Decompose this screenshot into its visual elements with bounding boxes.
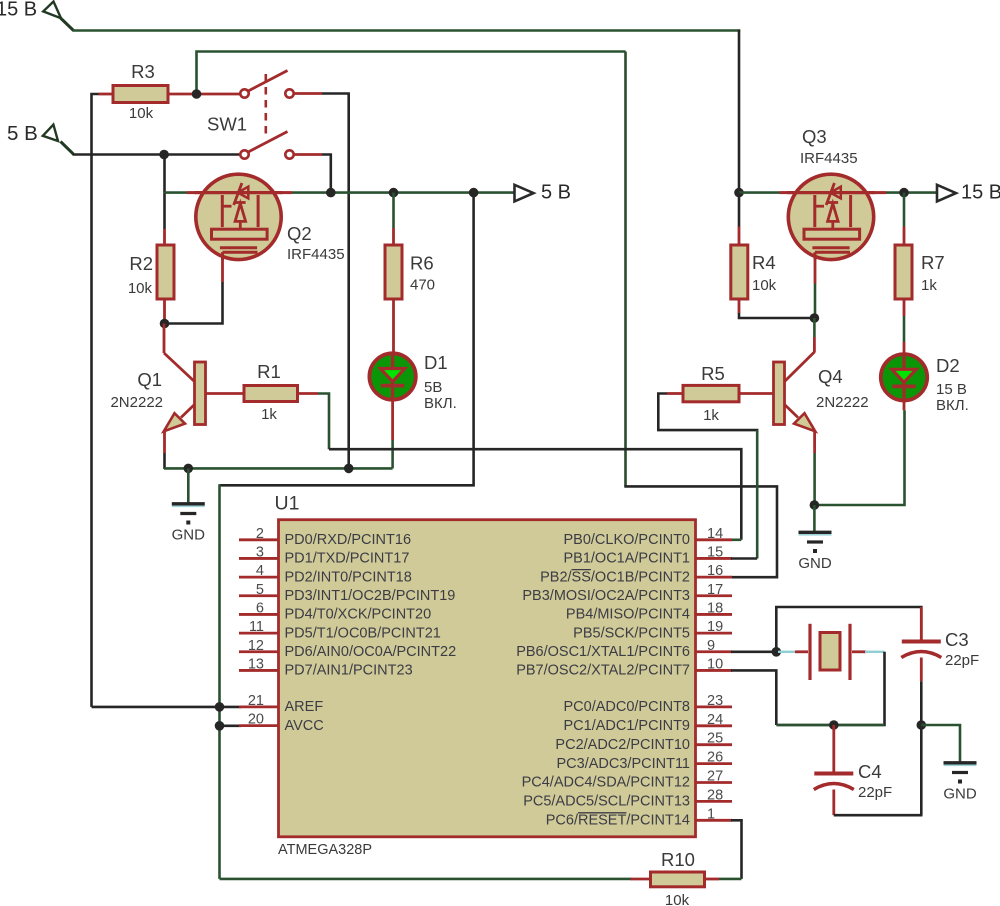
pin 21 AREF (239, 693, 323, 715)
svg-text:R2: R2 (129, 253, 153, 274)
wire Q3 gate lead (814, 259, 817, 318)
wire Q2 gate elbow (165, 260, 223, 324)
svg-text:R6: R6 (410, 253, 434, 274)
pin 1 PC6 (546, 806, 732, 828)
svg-text:AREF: AREF (285, 699, 324, 715)
wire AVCC net vertical (218, 484, 221, 879)
wire osc bottom rail (776, 724, 884, 727)
svg-text:27: 27 (707, 769, 723, 785)
node SW1-pole2 on rail (326, 188, 336, 198)
resistor R1 (244, 361, 298, 423)
node R6 top on rail (389, 188, 399, 198)
svg-text:26: 26 (707, 750, 723, 766)
label ATMEGA328P (278, 842, 372, 858)
svg-text:16: 16 (707, 563, 723, 579)
wire PB7 link (731, 670, 776, 725)
svg-text:R10: R10 (661, 849, 695, 870)
wire SW1 pole1 drop (347, 94, 350, 469)
switch SW1 pole 2 (240, 132, 293, 159)
ground GND crystal (943, 763, 977, 803)
wire crystal right lead (852, 650, 885, 653)
svg-text:PD3/INT1/OC2B/PCINT19: PD3/INT1/OC2B/PCINT19 (285, 588, 456, 604)
svg-text:1k: 1k (703, 407, 719, 424)
led D1 (369, 352, 456, 412)
node AVCC branch on rail (469, 188, 479, 198)
node C4 top junction (829, 720, 839, 730)
pin 26 PC3 (557, 750, 733, 772)
svg-text:D1: D1 (424, 352, 448, 373)
svg-text:C3: C3 (945, 629, 969, 650)
svg-text:4: 4 (256, 563, 264, 579)
resistor R2 (128, 245, 174, 299)
pin 20 AVCC (239, 712, 324, 734)
svg-text:23: 23 (707, 693, 723, 709)
wire switched-15V riser (197, 52, 626, 95)
capacitor C4 (814, 761, 892, 801)
svg-text:24: 24 (707, 712, 723, 728)
svg-text:15: 15 (707, 544, 723, 560)
pin 28 PC5 (523, 787, 732, 809)
wire 5V to AVCC net (220, 193, 474, 486)
pin 13 PD7 (239, 656, 413, 678)
wire PC6 to R10 (731, 820, 742, 879)
node SW1-pole1 on rail (344, 464, 354, 474)
svg-text:R4: R4 (752, 252, 776, 273)
resistor R10 (651, 849, 705, 906)
node R2/Q2-gate/Q1 junction (160, 319, 170, 329)
wire R10 right lead (705, 878, 742, 881)
wire D2 bottom lead (814, 399, 904, 505)
svg-text:10k: 10k (128, 280, 153, 297)
svg-text:PB7/OSC2/XTAL2/PCINT7: PB7/OSC2/XTAL2/PCINT7 (516, 663, 690, 679)
pin 24 PC1 (563, 712, 732, 734)
wire AREF horizontal (92, 706, 242, 709)
svg-text:19: 19 (707, 619, 723, 635)
wire 5V rail right (281, 191, 515, 194)
svg-text:GND: GND (943, 786, 977, 803)
svg-text:PB6/OSC1/XTAL1/PCINT6: PB6/OSC1/XTAL1/PCINT6 (516, 644, 690, 660)
svg-text:PB1/OC1A/PCINT1: PB1/OC1A/PCINT1 (563, 551, 690, 567)
transistor Q1 2N2222 (110, 362, 244, 431)
pin 3 PD1 (239, 544, 409, 566)
wire R6 top lead (392, 193, 395, 245)
wire R3 right lead (168, 93, 241, 96)
svg-text:2N2222: 2N2222 (110, 394, 163, 411)
svg-text:3: 3 (256, 544, 264, 560)
wire 5V feed to SW1 (73, 153, 242, 156)
svg-text:C4: C4 (858, 761, 882, 782)
label SW1 (207, 114, 247, 135)
terminal 15V output (937, 182, 1000, 204)
wire GND right branch (813, 505, 816, 532)
svg-text:PD6/AIN0/OC0A/PCINT22: PD6/AIN0/OC0A/PCINT22 (285, 644, 457, 660)
node Q4-emitter/D2/GND junction (810, 500, 820, 510)
svg-text:22pF: 22pF (945, 652, 979, 669)
pin 17 PB3 (522, 582, 732, 604)
svg-text:5В: 5В (424, 379, 442, 396)
svg-text:15 В: 15 В (0, 0, 37, 21)
wire R3 left elbow (92, 94, 99, 707)
resistor R6 (385, 245, 435, 299)
pin 14 PB0 (563, 526, 732, 548)
switch SW1 gang link (264, 74, 267, 136)
svg-text:5 В: 5 В (541, 182, 571, 204)
svg-text:1: 1 (707, 806, 715, 822)
pin 12 PD6 (239, 638, 456, 660)
svg-text:21: 21 (248, 693, 264, 709)
node R7 top junction (899, 188, 909, 198)
svg-text:1k: 1k (921, 277, 937, 294)
wire R10 left lead (631, 878, 651, 881)
svg-text:PD7/AIN1/PCINT23: PD7/AIN1/PCINT23 (285, 663, 413, 679)
pin 6 PD4 (239, 600, 431, 622)
node Q3-gate/Q4-collector junction (810, 313, 820, 323)
svg-text:PB4/MISO/PCINT4: PB4/MISO/PCINT4 (566, 607, 690, 623)
mosfet Q3 IRF4435 (780, 126, 875, 260)
svg-text:12: 12 (248, 638, 264, 654)
svg-text:20: 20 (248, 712, 264, 728)
pin 4 PD2 (239, 563, 412, 585)
capacitor C3 (901, 629, 979, 669)
svg-text:6: 6 (256, 600, 264, 616)
svg-text:1k: 1k (261, 406, 277, 423)
pin 5 PD3 (239, 582, 455, 604)
svg-text:10k: 10k (665, 892, 690, 906)
wire 15V rail to Q3 (739, 191, 780, 194)
wire Q4 collector (785, 318, 815, 382)
pin 15 PB1 (563, 544, 732, 566)
svg-text:Q1: Q1 (137, 369, 162, 390)
pin 11 PD5 (239, 619, 441, 641)
svg-text:PC3/ADC3/PCINT11: PC3/ADC3/PCINT11 (557, 756, 691, 772)
ground GND left (172, 504, 206, 544)
svg-text:PC0/ADC0/PCINT8: PC0/ADC0/PCINT8 (563, 699, 690, 715)
svg-text:Q4: Q4 (818, 366, 843, 387)
svg-text:PC1/ADC1/PCINT9: PC1/ADC1/PCINT9 (563, 718, 690, 734)
wire crystal GND branch (921, 725, 960, 763)
svg-text:Q2: Q2 (287, 223, 312, 244)
wire Q4 emitter drop (813, 430, 816, 505)
wire C3 bottom lead (920, 658, 923, 726)
svg-text:PD4/T0/XCK/PCINT20: PD4/T0/XCK/PCINT20 (285, 607, 432, 623)
wire R2 top lead (163, 193, 166, 245)
svg-text:11: 11 (249, 619, 264, 635)
mosfet Q2 IRF4435 (187, 174, 345, 263)
wire R1 right to PB0 (298, 394, 742, 540)
wire gate-bus to PB2 (624, 486, 777, 577)
resistor R4 (731, 245, 777, 299)
wire 15V terminal lead (61, 18, 74, 31)
pin 2 PD0 (239, 526, 411, 548)
svg-text:GND: GND (798, 555, 832, 572)
node AVCC junction (215, 721, 225, 731)
svg-text:470: 470 (410, 277, 435, 294)
svg-text:PC6/RESET/PCINT14: PC6/RESET/PCINT14 (546, 813, 690, 829)
node crystal/C3 junction (772, 647, 782, 657)
pin 19 PB5 (573, 619, 732, 641)
wire SW1 pole1 out (294, 92, 350, 95)
svg-text:PB3/MOSI/OC2A/PCINT3: PB3/MOSI/OC2A/PCINT3 (522, 588, 690, 604)
node Q3 gate/15V junction (734, 188, 744, 198)
ground GND right (798, 532, 832, 572)
svg-text:PC2/ADC2/PCINT10: PC2/ADC2/PCINT10 (555, 737, 690, 753)
svg-text:15 В: 15 В (936, 381, 967, 398)
svg-text:PD5/T1/OC0B/PCINT21: PD5/T1/OC0B/PCINT21 (285, 625, 441, 641)
svg-text:ATMEGA328P: ATMEGA328P (278, 842, 372, 858)
wire C3 top lead (920, 607, 923, 640)
wire C3-C4 gnd link (920, 725, 923, 815)
wire 5V rail left (165, 191, 188, 194)
svg-text:22pF: 22pF (858, 784, 892, 801)
wire Q3 out rail (874, 191, 938, 194)
wire GND branch (187, 468, 190, 503)
node R3/SW1 junction (192, 89, 202, 99)
transistor Q4 2N2222 (774, 362, 869, 431)
wire R5 left elbow (658, 394, 758, 559)
svg-text:IRF4435: IRF4435 (287, 246, 345, 263)
resistor R5 (683, 363, 739, 424)
svg-text:R7: R7 (921, 252, 945, 273)
wire bottom rail to R10 (220, 878, 632, 881)
wire R2 bottom lead (163, 299, 166, 324)
label U1 (275, 493, 300, 515)
wire emitter rail (164, 467, 393, 470)
svg-text:10k: 10k (752, 277, 777, 294)
wire C4 bottom elbow (834, 790, 923, 816)
svg-text:PB2/SS/OC1B/PCINT2: PB2/SS/OC1B/PCINT2 (540, 569, 690, 585)
svg-text:PD0/RXD/PCINT16: PD0/RXD/PCINT16 (285, 532, 412, 548)
pin 16 PB2 (540, 563, 732, 585)
svg-text:PB0/CLKO/PCINT0: PB0/CLKO/PCINT0 (563, 532, 690, 548)
svg-text:ВКЛ.: ВКЛ. (936, 397, 969, 414)
pin 18 PB4 (566, 600, 732, 622)
node GND branch (184, 464, 194, 474)
wire D1 bottom lead (391, 398, 394, 468)
wire crystal C3 top link (776, 607, 921, 652)
wire Q1 collector (164, 324, 195, 382)
wire 5V-node drop (163, 155, 166, 193)
svg-text:9: 9 (707, 638, 715, 654)
node C3/GND junction (917, 720, 927, 730)
wire 5V terminal lead (61, 142, 74, 155)
svg-text:18: 18 (707, 600, 723, 616)
svg-text:25: 25 (707, 731, 723, 747)
wire R7-D2 lead (903, 299, 906, 356)
svg-text:13: 13 (248, 656, 264, 672)
svg-text:17: 17 (707, 582, 723, 598)
resistor R3 (113, 61, 168, 122)
wire 15V drop to Q3 node (738, 30, 741, 193)
led D2 (881, 354, 969, 414)
svg-text:PD2/INT0/PCINT18: PD2/INT0/PCINT18 (285, 569, 412, 585)
wire Q1 emitter drop (163, 430, 166, 469)
wire SW1 pole2 out (294, 155, 331, 193)
pin 25 PC2 (555, 731, 732, 753)
svg-text:10k: 10k (129, 105, 154, 122)
svg-text:D2: D2 (936, 355, 960, 376)
svg-text:ВКЛ.: ВКЛ. (424, 395, 457, 412)
svg-text:5: 5 (256, 582, 264, 598)
svg-text:R1: R1 (257, 361, 281, 382)
power terminal 15V input (0, 0, 61, 21)
wire R3 left lead (99, 93, 114, 96)
svg-text:R3: R3 (131, 61, 155, 82)
pin 10 PB7 (516, 656, 732, 678)
ic U1 body (279, 520, 696, 837)
pin 27 PC4 (522, 769, 732, 791)
wire crystal right drop (777, 652, 885, 725)
pin 23 PC0 (563, 693, 732, 715)
svg-text:U1: U1 (275, 493, 300, 515)
wire R7 top lead (903, 193, 906, 245)
svg-text:AVCC: AVCC (285, 718, 324, 734)
pin 9 PB6 (516, 638, 732, 660)
svg-text:10: 10 (707, 656, 723, 672)
wire crystal left lead (778, 651, 808, 653)
svg-text:14: 14 (707, 526, 723, 542)
wire R6-D1 lead (392, 299, 395, 355)
wire PB6 to crystal (731, 650, 778, 653)
svg-text:15 В: 15 В (961, 182, 1000, 204)
wire AVCC stub (220, 724, 242, 727)
svg-text:2: 2 (256, 526, 264, 542)
svg-text:5 В: 5 В (7, 122, 38, 145)
resistor R7 (895, 245, 945, 299)
svg-text:R5: R5 (701, 363, 725, 384)
node 5V feed junction (159, 150, 169, 160)
svg-text:SW1: SW1 (207, 114, 247, 135)
node AREF junction (215, 702, 225, 712)
wire 15V top rail (73, 29, 741, 32)
wire R4 top lead (738, 193, 741, 245)
svg-text:Q3: Q3 (802, 126, 827, 147)
wire C4 top lead (832, 725, 835, 773)
wire R4 bottom elbow (739, 299, 814, 318)
wire R5 right lead (739, 392, 774, 395)
wire gate-bus vertical (624, 52, 627, 487)
terminal 5V input (7, 122, 58, 145)
crystal X1 (810, 624, 850, 680)
svg-text:PC5/ADC5/SCL/PCINT13: PC5/ADC5/SCL/PCINT13 (523, 794, 690, 810)
svg-text:IRF4435: IRF4435 (800, 150, 858, 167)
switch SW1 pole 1 (240, 71, 293, 98)
svg-text:PB5/SCK/PCINT5: PB5/SCK/PCINT5 (573, 625, 690, 641)
terminal 5V output (515, 182, 572, 204)
svg-text:28: 28 (707, 787, 723, 803)
svg-text:PC4/ADC4/SDA/PCINT12: PC4/ADC4/SDA/PCINT12 (522, 775, 690, 791)
svg-text:PD1/TXD/PCINT17: PD1/TXD/PCINT17 (285, 551, 410, 567)
svg-text:2N2222: 2N2222 (816, 394, 869, 411)
svg-text:GND: GND (172, 527, 206, 544)
